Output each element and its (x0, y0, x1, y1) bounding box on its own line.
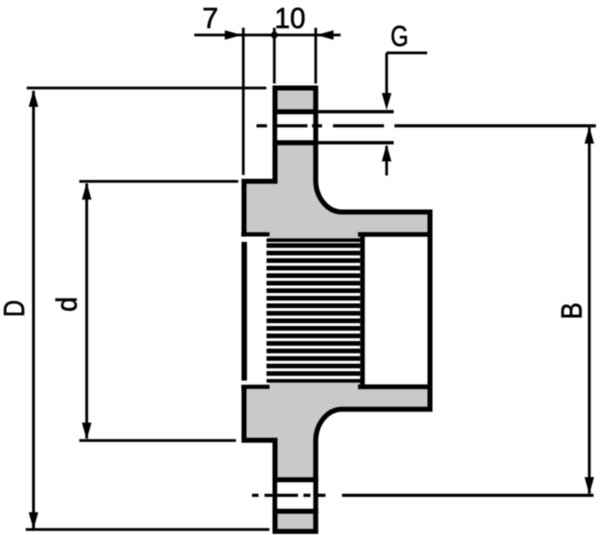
d extension bottom (79, 439, 236, 442)
counterbore left edge (360, 234, 365, 386)
arrow 7 left (225, 30, 242, 40)
G leader vertical (385, 53, 388, 98)
D arrow down (29, 512, 39, 529)
bore entry top cap (241, 232, 269, 236)
top bolt hole upper edge (273, 109, 319, 114)
G lower tail (385, 146, 388, 176)
bore cavity entry (white) (246, 237, 269, 385)
shared arrow diamond (270, 30, 279, 40)
dimension d line (85, 184, 88, 439)
svg-text:B: B (557, 302, 589, 319)
D extension top (27, 87, 267, 90)
counterbore bottom cap (358, 384, 430, 389)
B arrow down (585, 477, 595, 494)
G extension line lower (318, 141, 394, 144)
dimension D line (32, 91, 35, 529)
G extension line upper (318, 110, 394, 113)
bore entry bottom cap (241, 385, 269, 389)
counterbore cavity (white) (363, 237, 428, 384)
extension line hub right (314, 28, 317, 84)
svg-text:10: 10 (275, 3, 306, 35)
thread bore top boundary (267, 238, 362, 242)
D extension bottom (26, 528, 270, 531)
thread hatch lines (267, 243, 361, 376)
G arrow up (382, 144, 392, 161)
counterbore top cap (358, 232, 430, 237)
flange body (section outline with hub, fillets) (244, 88, 430, 531)
extension line hub left (273, 28, 276, 84)
top centerline (257, 124, 596, 127)
B arrow up (585, 127, 595, 144)
G leader horizontal (387, 52, 428, 55)
white notches at bore left corners (241, 237, 248, 242)
D arrow up (29, 90, 39, 107)
bottom centerline (252, 494, 594, 497)
dimension B line (588, 128, 591, 494)
extension line left face (242, 28, 245, 175)
dimension line 7/10 (194, 34, 340, 37)
thread entry edge line (242, 242, 247, 380)
thread cavity (white) (267, 242, 361, 379)
d arrow down (82, 423, 92, 440)
thread bore bottom boundary (267, 379, 362, 383)
d extension top (79, 180, 238, 183)
top bolt hole lower edge (273, 140, 319, 145)
bottom bolt hole upper edge (273, 477, 319, 482)
svg-text:D: D (0, 300, 31, 317)
svg-text:G: G (391, 21, 409, 53)
arrow 10 right (317, 30, 334, 40)
bottom bolt hole (white band in hub) (277, 482, 313, 509)
G arrow down (382, 93, 392, 110)
svg-text:7: 7 (202, 3, 218, 35)
top bolt hole (white band in hub) (277, 114, 313, 140)
bottom bolt hole lower edge (273, 509, 319, 514)
d arrow up (82, 183, 92, 200)
svg-text:d: d (52, 297, 84, 312)
